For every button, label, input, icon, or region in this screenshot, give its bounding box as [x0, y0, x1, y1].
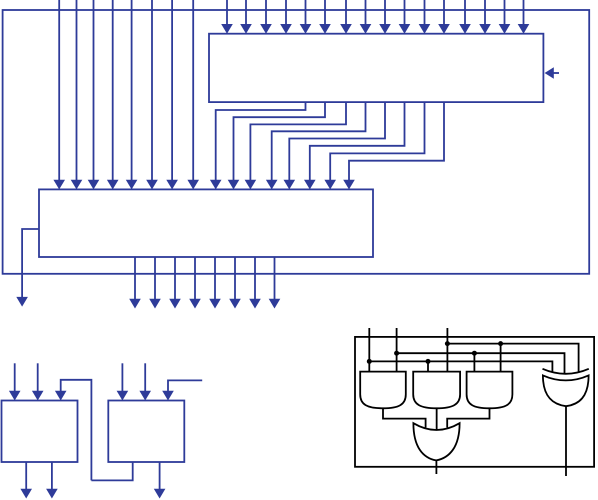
wire: input bit 5 into register B — [146, 0, 158, 189]
wire: output 1 below box C — [20, 462, 32, 499]
XOR gate U5 (sum) input arc — [543, 369, 589, 374]
wire: input bit 4 into register B — [126, 0, 138, 189]
full-adder enclosure box — [355, 337, 594, 467]
block box C (bottom-left) — [2, 401, 78, 463]
wire: register A output 5 shifted into register B — [304, 102, 405, 189]
wire: sum output below enclosure — [565, 406, 567, 476]
wire: input bit 3 into register B — [107, 0, 119, 189]
junction dot B-level2 — [394, 351, 399, 356]
outer enclosure box — [3, 10, 590, 274]
wire: register A output 7 shifted into register B — [343, 102, 444, 189]
junction dot tap-AND3L — [472, 351, 477, 356]
wire: input bit 8 into register A — [379, 0, 391, 34]
AND gate U2 — [413, 372, 460, 409]
wire: input bit 13 into register A — [479, 0, 491, 34]
junction dot C-level1 — [445, 341, 450, 346]
wire: bus level 1 (C) with bend to XOR — [447, 344, 578, 373]
wire: input bit 2 into register A — [260, 0, 272, 34]
wire: input bit 9 into register A — [399, 0, 411, 34]
OR gate U4 (carry) — [413, 423, 459, 460]
block box D (bottom-left right) — [108, 401, 184, 463]
wire: tap A down to AND2 left input — [427, 361, 429, 371]
wire: input 1 into box D — [117, 363, 129, 400]
wire: tap C down to AND3 right input — [500, 344, 502, 372]
wire: input bit 1 into register A — [240, 0, 252, 34]
wire: input bit 7 into register B — [187, 0, 199, 189]
wire: input 2 into box D — [139, 363, 151, 400]
wire: input bit 2 into register B — [88, 0, 100, 189]
wire: input bit 3 into register A — [280, 0, 292, 34]
AND gate U1 — [360, 372, 406, 409]
wire: input bit 5 into register A — [319, 0, 331, 34]
junction dot tap-AND2 — [426, 359, 431, 364]
wire: register A output 4 shifted into register B — [284, 102, 386, 189]
wire: output bit 0 below register B — [129, 257, 141, 309]
wire: input bit 6 into register A — [340, 0, 352, 34]
wire: output bit 1 below register B — [149, 257, 161, 309]
wire: bus level 3 (A) with bend to XOR — [369, 361, 552, 372]
wire: feedback from box D bottom to box C — [91, 462, 132, 480]
wire: output bit 6 below register B — [249, 257, 261, 309]
wire: input bit 11 into register A — [438, 0, 450, 34]
junction dot tap-AND3R — [498, 341, 503, 346]
wire: input B vertical — [396, 328, 398, 372]
XOR gate U5 (sum) body — [543, 375, 589, 406]
wire: input 2 into box C — [32, 363, 44, 400]
wire: register A output 0 shifted into register B — [210, 102, 306, 189]
wire: register A output 6 shifted into register B — [324, 102, 424, 189]
wire: input bit 10 into register A — [419, 0, 431, 34]
wire: output 2 below box C — [46, 462, 58, 499]
wire: input bit 7 into register A — [360, 0, 372, 34]
wire: register A output 3 shifted into register B — [266, 102, 366, 189]
junction dot A-level3 — [367, 359, 372, 364]
wire: input bit 1 into register B — [71, 0, 83, 189]
wire: U3 output to OR gate — [447, 408, 489, 427]
wire: input bit 14 into register A — [499, 0, 511, 34]
wire: input bit 4 into register A — [300, 0, 312, 34]
wire: output bit 4 below register B — [209, 257, 221, 309]
wire: input bit 6 into register B — [166, 0, 178, 189]
wire: output bit 7 below register B — [269, 257, 281, 309]
wire: input bit 12 into register A — [459, 0, 471, 34]
AND gate U3 — [467, 372, 513, 409]
wire: input A vertical — [368, 328, 370, 372]
wire: serial output from register B left side — [16, 229, 39, 307]
wire: feedback input 3 into box C (elbow from right) — [55, 380, 92, 481]
wire: register A output 2 shifted into register B — [245, 102, 346, 189]
wire: output bit 2 below register B — [169, 257, 181, 309]
wire: tap B down to AND3 left input — [473, 353, 475, 371]
wire: U2 output to OR gate — [436, 408, 438, 430]
register box B (bottom) — [39, 189, 373, 257]
wire: carry output below enclosure — [435, 461, 437, 475]
wire: input 1 into box C — [9, 363, 21, 400]
wire: register A output 1 shifted into register B — [228, 102, 325, 189]
wire: input C vertical — [446, 328, 448, 372]
wire: input bit 15 into register A — [518, 0, 530, 34]
wire: output below box D — [154, 462, 166, 499]
wire: input bit 0 into register B — [53, 0, 65, 189]
wire: serial input arrow into register A right side — [545, 67, 559, 79]
wire: input 3 into box D (stub from right) — [162, 380, 202, 400]
wire: output bit 5 below register B — [229, 257, 241, 309]
wire: bus level 2 (B) with bend to XOR — [397, 353, 565, 374]
register box A (top) — [209, 34, 543, 102]
wire: output bit 3 below register B — [189, 257, 201, 309]
wire: input bit 0 into register A — [221, 0, 233, 34]
wire: U1 output to OR gate — [383, 408, 426, 427]
